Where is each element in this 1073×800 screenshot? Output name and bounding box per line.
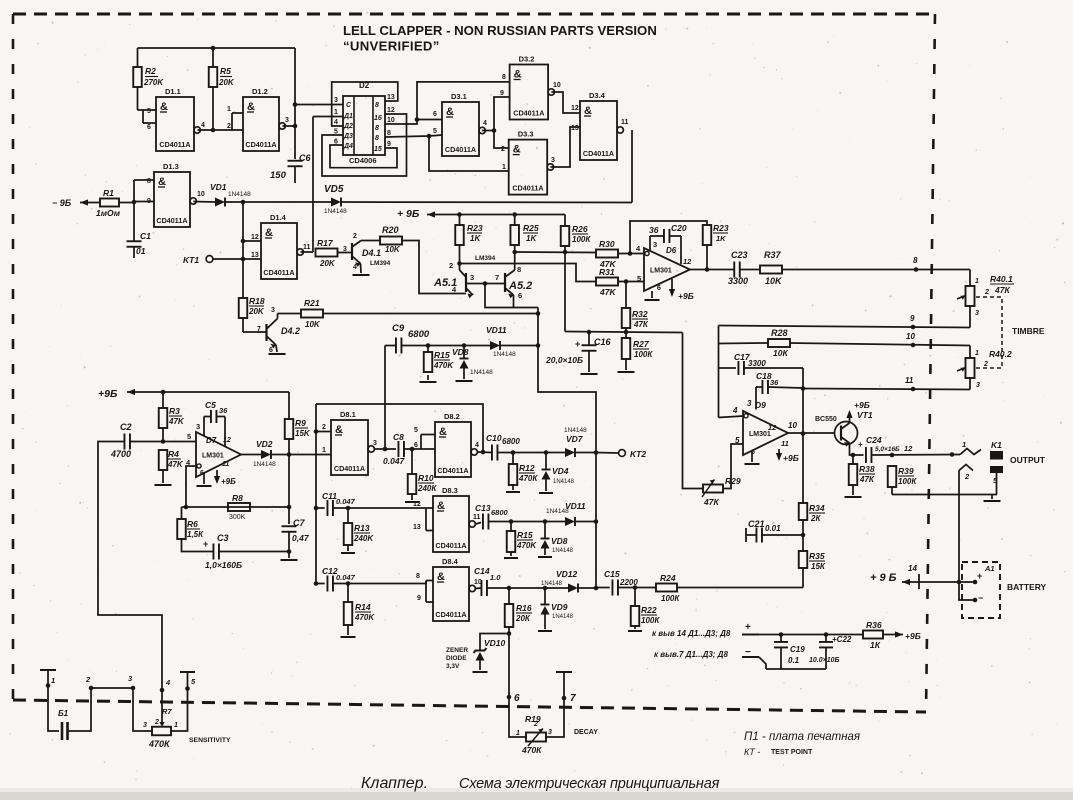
svg-text:C24: C24 (866, 435, 882, 445)
svg-text:D1.3: D1.3 (163, 162, 179, 171)
wire bias rail down to R29 (683, 333, 704, 489)
svg-text:CD4011A: CD4011A (583, 149, 614, 158)
svg-text:VD11: VD11 (486, 325, 507, 335)
svg-text:3: 3 (975, 310, 979, 317)
battery A1 dashed box (962, 562, 1000, 618)
wire C3 to C7 column (219, 551, 289, 553)
resistor R24 100K (656, 584, 677, 592)
wire A5.1 collector node to R31 feed (460, 264, 597, 282)
resistor R23 1K (455, 225, 464, 245)
svg-text:&: & (437, 500, 445, 512)
op-amp D6 LM301 (644, 248, 690, 291)
svg-text:3: 3 (196, 422, 200, 431)
op-amp D7 LM301 (196, 432, 241, 477)
wire D9 +9V stub (778, 449, 780, 459)
gate D3.1 CD4011A (442, 102, 479, 156)
svg-text:5: 5 (187, 432, 191, 441)
ground D4.2 (269, 353, 286, 355)
resistor R35 15K (799, 551, 808, 568)
svg-text:12: 12 (413, 501, 421, 508)
svg-text:CD4011A: CD4011A (263, 268, 294, 277)
svg-text:36: 36 (770, 378, 779, 387)
svg-text:100К: 100К (634, 350, 653, 359)
wire C24 to jack tip (872, 454, 961, 457)
svg-text:R27: R27 (633, 339, 650, 349)
resistor R20 10K (380, 237, 402, 245)
svg-text:D1.1: D1.1 (165, 87, 181, 96)
svg-text:R29: R29 (725, 476, 741, 486)
terminal KT1 (206, 256, 213, 263)
svg-text:R13: R13 (354, 523, 370, 533)
svg-text:100К: 100К (572, 235, 591, 244)
svg-text:2К: 2К (810, 514, 821, 523)
svg-text:8: 8 (502, 74, 506, 81)
svg-text:+9Б: +9Б (98, 388, 118, 400)
zener diode VD10 3.3V (474, 648, 487, 653)
wire D3.1 out to D3.3 pin2 (494, 131, 509, 149)
svg-text:K1: K1 (991, 440, 1002, 450)
resistor R18 20K (239, 298, 248, 318)
svg-text:12: 12 (571, 105, 579, 112)
wire R39 to ground line (891, 487, 893, 495)
wire C2 left to mic line (98, 442, 162, 691)
capacitor C6 150 (288, 160, 303, 162)
svg-text:KT2: KT2 (630, 449, 646, 459)
resistor R39 100K (888, 466, 897, 487)
svg-text:6800: 6800 (491, 508, 509, 517)
capacitor C8 0.047 (397, 441, 399, 457)
capacitor C3 1.0x160V (212, 544, 214, 560)
svg-text:470К: 470К (148, 739, 171, 749)
svg-text:R5: R5 (220, 66, 231, 76)
wire R15b ground (510, 552, 512, 556)
svg-text:2: 2 (983, 361, 988, 368)
diode VD4 1N4148 (542, 469, 551, 471)
wire D9 pin4 feed (719, 416, 744, 418)
svg-text:10: 10 (906, 332, 915, 341)
wire C17 line (719, 367, 737, 369)
wire R28 line (719, 342, 769, 345)
diode VD5 1N4148 (331, 198, 341, 207)
capacitor C18 36 (761, 380, 763, 394)
svg-text:1мОм: 1мОм (96, 208, 121, 218)
wire A5 common bases (466, 283, 505, 285)
svg-text:VT1: VT1 (857, 410, 873, 420)
svg-text:470K: 470K (516, 541, 537, 550)
svg-text:15К: 15К (811, 562, 826, 571)
svg-text:CD4011A: CD4011A (437, 466, 468, 475)
svg-text:3: 3 (143, 722, 147, 729)
wire ring contact to battery minus (959, 471, 975, 601)
svg-text:470К: 470К (518, 474, 538, 483)
svg-text:C1: C1 (140, 231, 151, 241)
resistor R12 470K (509, 464, 518, 485)
svg-text:R25: R25 (523, 223, 539, 233)
capacitor C11 0.047 (316, 507, 325, 509)
svg-text:R7: R7 (162, 707, 172, 716)
svg-text:CD4011A: CD4011A (156, 216, 187, 225)
svg-text:&: & (513, 144, 521, 156)
wire A5 emitter bus down to KT2 bus (538, 308, 596, 589)
svg-text:7: 7 (495, 273, 499, 282)
svg-text:4: 4 (353, 264, 357, 271)
svg-text:9: 9 (910, 314, 915, 323)
svg-text:2: 2 (85, 675, 91, 684)
svg-text:D8.4: D8.4 (442, 557, 459, 566)
wire D8.1 pin2 stub (316, 431, 331, 433)
svg-text:15K: 15K (295, 429, 311, 438)
svg-text:A5.1: A5.1 (433, 277, 457, 289)
wire pin14 tick (918, 574, 920, 589)
svg-text:D8.3: D8.3 (442, 486, 458, 495)
wire R1 left with arrow (80, 202, 100, 204)
resistor R22 100K (631, 606, 640, 626)
svg-text:+: + (977, 571, 982, 581)
svg-text:01: 01 (136, 246, 146, 256)
wire R21 to A5 emitter bus (323, 313, 538, 315)
wire R27 ground stem (625, 359, 627, 370)
svg-text:DECAY: DECAY (574, 729, 598, 736)
wire R29 to D9 pin5 (723, 444, 743, 489)
svg-text:1: 1 (962, 440, 966, 449)
svg-text:R31: R31 (599, 267, 615, 277)
svg-text:0.1: 0.1 (788, 656, 800, 665)
svg-text:6: 6 (269, 347, 273, 354)
ground R38 (845, 496, 862, 498)
svg-text:3,3V: 3,3V (446, 663, 460, 670)
svg-text:+: + (575, 339, 580, 349)
wire D8.1 out (375, 448, 396, 450)
svg-text:11: 11 (905, 376, 914, 385)
svg-text:1: 1 (322, 447, 326, 454)
svg-text:12: 12 (387, 107, 395, 114)
svg-text:C8: C8 (393, 432, 404, 442)
svg-text:1N4148: 1N4148 (552, 548, 574, 554)
svg-text:A1: A1 (984, 564, 995, 573)
capacitor C17 3300 (737, 361, 739, 375)
svg-text:KT1: KT1 (183, 255, 199, 265)
gate D3.4 CD4011A (580, 101, 617, 160)
svg-text:R32: R32 (632, 309, 648, 319)
wire R9/C7 column (288, 439, 290, 524)
transistor A5.1 (LM394 half) (465, 273, 467, 292)
wire battery minus stub (973, 598, 978, 603)
svg-text:R40.2: R40.2 (989, 349, 1012, 359)
gate D1.2 CD4011A (243, 97, 279, 151)
wire D8 left bus (315, 404, 317, 584)
wire terminal 2 to 3 (91, 687, 133, 689)
wire D6 output (690, 269, 734, 271)
svg-text:3: 3 (373, 440, 377, 447)
svg-text:R23: R23 (713, 223, 729, 233)
ic D2 CD4006 body (343, 96, 385, 155)
svg-text:D1.4: D1.4 (270, 213, 287, 222)
wire D7 pin4 riser (186, 466, 196, 507)
wire D3.2 out to D3.4 pin12 (551, 92, 580, 113)
wire R30 to D6 pin4 (618, 253, 644, 255)
svg-text:&: & (514, 69, 522, 81)
svg-text:4: 4 (201, 122, 205, 129)
resistor R23a 1K feedback (703, 225, 712, 245)
svg-text:R10: R10 (418, 473, 434, 483)
svg-text:CD4011A: CD4011A (159, 140, 190, 149)
svg-text:3: 3 (551, 157, 555, 164)
svg-text:240K: 240K (353, 534, 374, 543)
wire R10 ground (411, 494, 413, 500)
svg-text:C6: C6 (299, 153, 311, 163)
wire D2 pin10 to D3.1 pin6 (385, 120, 442, 125)
svg-text:Б1: Б1 (58, 709, 69, 718)
wire D3.3 out to D3.4 pin13 (550, 127, 580, 167)
ground D9 (745, 463, 760, 465)
svg-text:12: 12 (251, 234, 259, 241)
svg-text:VD8: VD8 (551, 536, 568, 546)
svg-text:100К: 100К (898, 477, 917, 486)
wire R18 to Q D4.2 base (242, 318, 244, 332)
svg-text:47K: 47K (167, 460, 184, 469)
potentiometer R7 470K SENSITIVITY (152, 727, 171, 736)
svg-text:VD5: VD5 (324, 184, 344, 195)
resistor R28 10K (768, 339, 790, 347)
svg-text:14: 14 (908, 564, 917, 573)
ground C16 (581, 373, 598, 375)
svg-text:5: 5 (433, 128, 437, 135)
svg-text:8: 8 (375, 102, 379, 109)
wire clock column vertical (294, 48, 296, 159)
svg-text:6: 6 (147, 124, 151, 131)
svg-text:C13: C13 (475, 503, 491, 513)
resistor R38 47K (849, 464, 858, 485)
svg-text:−: − (978, 593, 983, 603)
svg-text:12: 12 (768, 423, 777, 432)
svg-text:D1.2: D1.2 (252, 87, 268, 96)
wire D1.1 out to D1.2 in (198, 129, 233, 131)
svg-text:2: 2 (984, 289, 989, 296)
svg-text:4: 4 (165, 678, 171, 687)
svg-text:3: 3 (653, 240, 657, 249)
svg-text:D3.3: D3.3 (518, 130, 534, 139)
svg-text:1K: 1K (716, 234, 726, 243)
svg-text:240К: 240К (417, 484, 437, 493)
svg-text:20К: 20К (515, 614, 531, 623)
svg-text:8: 8 (517, 265, 521, 274)
svg-text:0.047: 0.047 (383, 456, 406, 466)
svg-text:ZENER: ZENER (446, 647, 468, 654)
svg-text:4: 4 (483, 120, 487, 127)
transistor A5.2 (LM394 half) (504, 273, 506, 292)
svg-text:R15: R15 (517, 530, 533, 540)
svg-text:CD4006: CD4006 (349, 156, 377, 165)
svg-text:100К: 100К (661, 594, 680, 603)
svg-text:&: & (439, 426, 447, 438)
wire pot to terminal 5 (171, 673, 188, 732)
diode VD8b 1N4148 (541, 538, 550, 540)
terminal 7 bar (556, 671, 572, 673)
wire C23 to R37 (740, 269, 760, 271)
svg-text:8: 8 (147, 178, 151, 185)
svg-text:CD4011A: CD4011A (512, 184, 543, 193)
wire R40.2 bottom to node 11 (969, 378, 971, 390)
capacitor C22 10.0x10V (825, 635, 827, 643)
ground VD10 (473, 671, 488, 673)
capacitor C19 0.1 (780, 635, 782, 643)
wire D9 ground stem (751, 452, 753, 462)
svg-text:2: 2 (533, 721, 538, 728)
svg-text:1: 1 (516, 730, 520, 737)
gate D8.3 CD4011A (433, 496, 469, 552)
svg-text:1N4148: 1N4148 (553, 479, 575, 485)
wire jack sleeve to ground (996, 473, 998, 495)
svg-text:13: 13 (571, 125, 579, 132)
wire D1.2 output to clock column (282, 125, 295, 127)
svg-text:R40.1: R40.1 (990, 274, 1013, 284)
svg-text:2: 2 (964, 472, 970, 481)
wire D2 pin12 to pin5 wrap (322, 114, 407, 176)
gate D1.3 CD4011A (154, 172, 190, 227)
wire node 9 line to R40.1 bottom (719, 326, 971, 328)
wire VT1 collector +9V (849, 412, 851, 423)
svg-text:16: 16 (374, 115, 382, 122)
svg-text:8: 8 (913, 256, 918, 265)
svg-text:LM394: LM394 (475, 255, 496, 262)
wire D9 output (788, 432, 835, 434)
terminal 1 bar (40, 669, 56, 671)
wire D3.1 out to D3.2 pin9 (494, 97, 510, 131)
wire top rail (138, 47, 296, 49)
wire R26 bottom to C16 rail (564, 245, 566, 332)
svg-text:+: + (745, 622, 751, 633)
svg-text:3: 3 (271, 307, 275, 314)
wire C15 to R24 (618, 587, 656, 589)
resistor R21 10K (301, 310, 323, 318)
svg-text:470K: 470K (354, 613, 375, 622)
wire R8 line (182, 506, 290, 508)
wire terminal 3 to pot (133, 688, 152, 731)
svg-text:C23: C23 (731, 250, 748, 260)
svg-text:4: 4 (475, 442, 479, 449)
svg-text:47К: 47К (633, 320, 649, 329)
wire left input column (133, 180, 135, 241)
capacitor C24 5.0x16V (865, 447, 867, 463)
wire VD11 to envelope node (500, 345, 538, 347)
svg-text:VD2: VD2 (256, 439, 273, 449)
wire D4.1 emitter ground stem (360, 264, 363, 274)
svg-text:CD4011A: CD4011A (445, 145, 476, 154)
capacitor C5 36 (210, 410, 212, 423)
svg-text:10K: 10K (305, 320, 321, 329)
wire D1.4 pin12 stub (243, 240, 261, 242)
svg-text:R39: R39 (898, 466, 914, 476)
svg-text:6: 6 (414, 442, 418, 449)
svg-text:LM394: LM394 (370, 260, 391, 267)
svg-text:6: 6 (657, 285, 661, 292)
svg-text:R18: R18 (249, 296, 265, 306)
wire R22 ground (634, 626, 636, 629)
svg-text:20,0×10Б: 20,0×10Б (545, 355, 583, 365)
svg-text:R9: R9 (295, 418, 306, 428)
wire R28 to R40.2 top / node 10 (790, 343, 970, 346)
wire VD5 to D3.4 output column (341, 201, 632, 204)
wire C9 to VD11 (385, 345, 396, 347)
wire +9V rail with arrow (427, 214, 565, 216)
svg-text:15: 15 (374, 146, 382, 153)
ground jack (991, 495, 993, 500)
svg-text:R35: R35 (809, 551, 825, 561)
diode VD7 1N4148 (565, 448, 575, 457)
svg-text:VD1: VD1 (210, 182, 227, 192)
svg-text:D4.2: D4.2 (281, 326, 300, 336)
wire C2 to D7 pin5 (130, 441, 196, 443)
wire R36 out +9V arrow (883, 634, 903, 636)
svg-text:+9Б: +9Б (678, 291, 694, 301)
svg-text:1: 1 (174, 722, 178, 729)
wire D3.3 pin1 to D2 pin8 node (429, 136, 509, 171)
wire C9 line riser from D8.1 output (384, 346, 386, 450)
gate D1.1 CD4011A (156, 97, 194, 151)
svg-text:4: 4 (334, 119, 338, 126)
wire D2 pin13 to pin4 wrap (332, 82, 398, 126)
svg-text:13: 13 (413, 524, 421, 531)
svg-text:&: & (437, 571, 445, 583)
wire R35 to C15 line (802, 568, 804, 588)
capacitor C2 4700 (123, 434, 125, 450)
wire D3.2 pin8 feedback (417, 82, 510, 120)
svg-text:1: 1 (502, 164, 506, 171)
svg-text:1: 1 (975, 350, 979, 357)
svg-text:10: 10 (387, 117, 395, 124)
wire D6 ground stem (651, 291, 653, 298)
svg-text:R16: R16 (516, 603, 532, 613)
svg-text:SENSITIVITY: SENSITIVITY (189, 737, 231, 744)
svg-text:1: 1 (51, 676, 55, 685)
svg-text:CD4011A: CD4011A (245, 140, 276, 149)
svg-text:3300: 3300 (748, 359, 766, 368)
wire C12 to D8.4 pin8 (333, 583, 426, 585)
wire D1.4 output to D2 pin1 (300, 251, 313, 253)
svg-text:CD4011A: CD4011A (513, 109, 544, 118)
svg-text:20K: 20K (248, 307, 265, 316)
potentiometer R19 470K DECAY (526, 733, 546, 742)
wire D1.3 inputs (134, 179, 154, 181)
svg-text:R34: R34 (809, 503, 825, 513)
svg-text:R19: R19 (525, 714, 541, 724)
svg-text:Клаппер.: Клаппер. (361, 775, 428, 792)
svg-text:R37: R37 (764, 250, 782, 260)
svg-text:&: & (247, 101, 255, 113)
potentiometer R29 47K (703, 485, 723, 493)
wire R16 bottom to zener node (508, 627, 510, 634)
gate D8.4 CD4011A (433, 567, 469, 621)
wire D7 output (241, 454, 261, 456)
svg-text:C14: C14 (474, 566, 490, 576)
svg-text:3: 3 (976, 382, 980, 389)
resistor R15b 470K (507, 531, 516, 552)
wire D4.1 collector to R20 (361, 240, 380, 242)
wire plus rail to R36 (759, 634, 863, 636)
diode VD2 1N4148 (261, 450, 271, 459)
svg-text:7: 7 (570, 693, 576, 704)
wire D8 feedback line (316, 404, 483, 452)
gate D8.1 CD4011A (331, 420, 368, 475)
wire base node down to emitter bus (485, 284, 538, 308)
wire D2 clock pin3 (295, 104, 343, 106)
wire R34 to C21 node (802, 520, 804, 551)
svg-text:LM301: LM301 (749, 431, 771, 438)
svg-text:12: 12 (904, 444, 913, 453)
svg-text:1.0: 1.0 (490, 573, 501, 582)
svg-text:&: & (160, 101, 168, 113)
wire KT1 column (242, 202, 244, 298)
